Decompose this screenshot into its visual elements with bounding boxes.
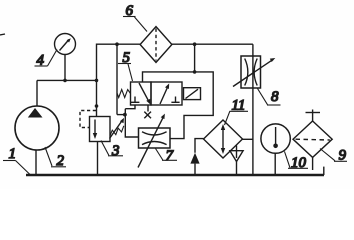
relief valve internal arrow <box>94 120 96 137</box>
wire pump to gauge/valve header <box>37 79 97 81</box>
tank line (component 1) <box>26 174 324 177</box>
node header junction <box>95 79 99 83</box>
wire relief valve drain to tank <box>97 142 99 175</box>
valve 5 left box blocked port <box>134 97 136 103</box>
svg-text:7: 7 <box>166 148 175 164</box>
tank right wall <box>323 167 325 175</box>
throttle 8 adjust arrow <box>233 59 273 86</box>
solenoid diagonal <box>186 89 199 98</box>
wire right trunk <box>252 44 254 174</box>
node gauge junction <box>63 79 67 83</box>
breather T handle <box>312 113 314 122</box>
node valve top line junction <box>193 70 197 74</box>
internal double arrow <box>222 127 224 151</box>
pump outlet triangle <box>28 108 43 118</box>
directional valve (component 5) left position box <box>131 82 152 105</box>
wire valve 5 top port <box>143 72 214 139</box>
wire junction link <box>117 114 125 116</box>
filter (component 6) <box>140 27 172 63</box>
wire riser down to relief valve <box>96 80 98 116</box>
wire gauge stem <box>64 55 66 81</box>
wire feed to throttle 7 inlet <box>125 109 138 137</box>
svg-text:1: 1 <box>9 146 17 162</box>
wire 9 stem <box>312 157 314 170</box>
breather (component 9) <box>293 121 332 157</box>
valve 5 solenoid box <box>184 88 201 100</box>
wire 10 stem <box>274 153 276 174</box>
throttle valve (component 7) <box>139 128 171 148</box>
wire funnel to tank <box>236 162 238 175</box>
svg-text:8: 8 <box>271 89 279 105</box>
drain check (solid triangle) <box>190 153 199 164</box>
valve 5 right box blocked port <box>175 97 177 103</box>
throttle (component 8) <box>241 56 261 88</box>
pump P (component 2) <box>15 106 59 150</box>
wire pump riser <box>36 80 38 106</box>
pilot line (dashed) <box>80 111 96 128</box>
node valve feed junction <box>123 113 127 117</box>
valve 5 vent port stub <box>147 105 149 112</box>
thermometer (component 10) <box>261 124 290 153</box>
node pilot tap <box>95 104 99 108</box>
node valve-5 supply tap <box>193 42 197 46</box>
wire 11 right port to trunk <box>243 138 253 140</box>
vent closed symbol x <box>144 112 151 119</box>
air filter-separator (component 11) <box>204 120 243 158</box>
drain funnel (open triangle) <box>236 146 238 151</box>
valve 5 right box flow path <box>160 86 168 105</box>
wire 11 left port with drain <box>195 139 204 153</box>
node filter-line tap <box>115 42 119 46</box>
throttle 7 adjust arrow <box>138 116 164 167</box>
gauge needle <box>60 40 70 51</box>
valve 5 left box flow path <box>139 83 149 102</box>
relief valve spring <box>110 126 124 136</box>
wire pump drain to tank <box>35 150 37 175</box>
wire main riser to filter line <box>97 44 141 80</box>
relief valve body (component 3) <box>90 117 111 142</box>
pressure gauge (component 4) <box>55 34 76 55</box>
wire drain to tank <box>194 164 196 174</box>
edge tick top-left <box>0 34 5 35</box>
wire branch to valve 5 bottom port <box>125 105 135 109</box>
wire tap down to valve top line <box>194 44 196 72</box>
valve 5 right position box <box>151 82 182 105</box>
relief valve adjust arrow <box>110 120 123 139</box>
svg-text:3: 3 <box>111 143 120 159</box>
wire filter outlet line <box>172 43 253 45</box>
valve 5 spring <box>117 90 130 98</box>
wire drop to throttle 7 <box>116 44 118 114</box>
